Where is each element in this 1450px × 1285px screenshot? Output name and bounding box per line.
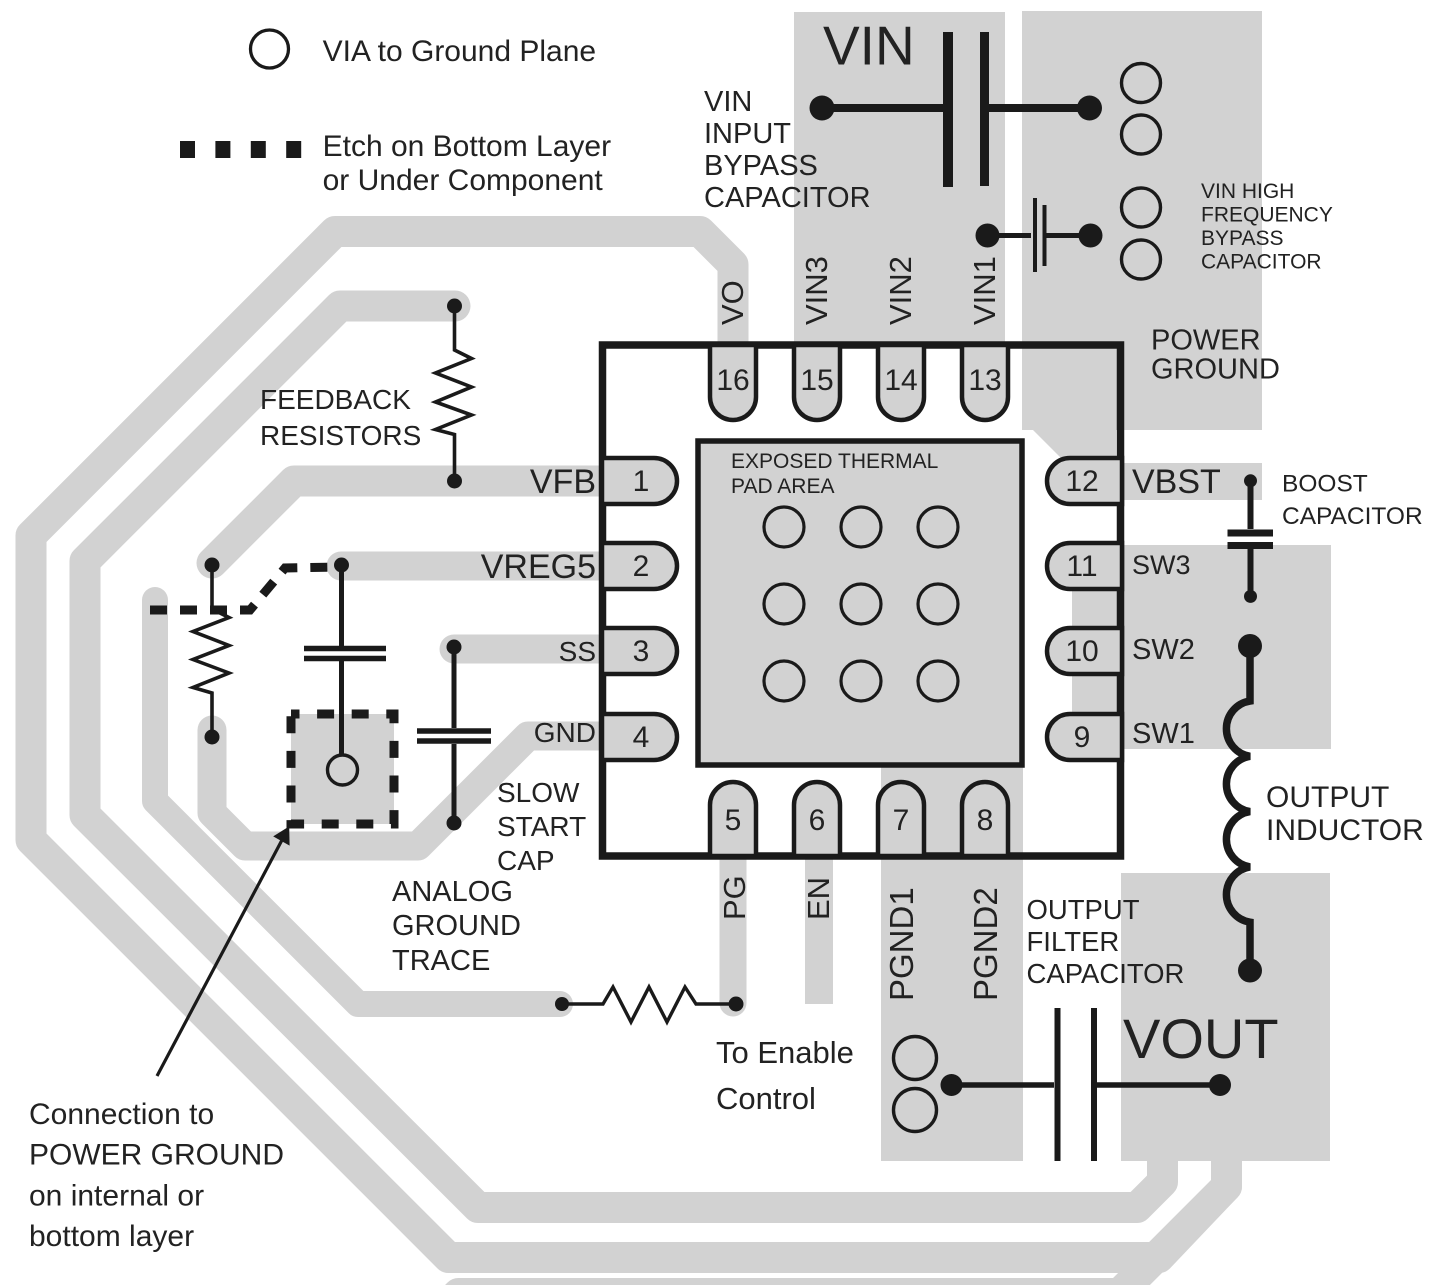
svg-text:or Under Component: or Under Component (323, 164, 604, 197)
svg-text:6: 6 (809, 804, 826, 837)
svg-text:CAP: CAP (497, 845, 555, 876)
svg-text:VIN: VIN (704, 86, 752, 118)
svg-text:PAD AREA: PAD AREA (731, 475, 834, 498)
svg-text:15: 15 (800, 364, 833, 397)
svg-text:CAPACITOR: CAPACITOR (704, 182, 871, 214)
svg-text:CAPACITOR: CAPACITOR (1201, 251, 1322, 274)
svg-text:GROUND: GROUND (392, 910, 521, 942)
svg-text:VIN1: VIN1 (967, 256, 1002, 325)
svg-text:INPUT: INPUT (704, 118, 791, 150)
svg-text:9: 9 (1074, 721, 1091, 754)
svg-text:7: 7 (893, 804, 910, 837)
svg-text:RESISTORS: RESISTORS (260, 420, 421, 451)
svg-text:BYPASS: BYPASS (1201, 227, 1283, 250)
svg-text:POWER GROUND: POWER GROUND (29, 1139, 284, 1172)
svg-text:4: 4 (633, 721, 650, 754)
svg-text:3: 3 (633, 635, 650, 668)
svg-text:12: 12 (1065, 465, 1098, 498)
svg-text:OUTPUT: OUTPUT (1027, 894, 1140, 925)
svg-text:bottom layer: bottom layer (29, 1220, 194, 1253)
svg-text:on internal or: on internal or (29, 1179, 204, 1212)
svg-text:SW3: SW3 (1132, 550, 1191, 580)
svg-text:SW2: SW2 (1132, 634, 1195, 666)
svg-text:VIN3: VIN3 (799, 256, 834, 325)
svg-text:VIA to Ground Plane: VIA to Ground Plane (323, 35, 597, 68)
svg-text:TRACE: TRACE (392, 945, 490, 977)
svg-text:10: 10 (1065, 635, 1098, 668)
svg-text:VIN HIGH: VIN HIGH (1201, 180, 1294, 203)
svg-text:PGND1: PGND1 (883, 887, 920, 1001)
svg-text:CAPACITOR: CAPACITOR (1027, 958, 1185, 989)
svg-text:PGND2: PGND2 (967, 887, 1004, 1001)
svg-text:SLOW: SLOW (497, 777, 580, 808)
svg-text:Etch on Bottom Layer: Etch on Bottom Layer (323, 130, 611, 163)
svg-text:SS: SS (559, 636, 596, 667)
svg-text:VBST: VBST (1132, 463, 1221, 501)
svg-text:Connection to: Connection to (29, 1098, 214, 1131)
svg-text:EXPOSED THERMAL: EXPOSED THERMAL (731, 450, 938, 473)
svg-text:FILTER: FILTER (1027, 926, 1120, 957)
svg-text:14: 14 (884, 364, 917, 397)
svg-text:13: 13 (968, 364, 1001, 397)
svg-text:CAPACITOR: CAPACITOR (1282, 503, 1423, 530)
svg-text:Control: Control (716, 1081, 816, 1116)
svg-text:VIN: VIN (823, 15, 915, 77)
svg-text:POWER: POWER (1151, 325, 1261, 357)
svg-text:FREQUENCY: FREQUENCY (1201, 204, 1333, 227)
svg-text:SW1: SW1 (1132, 718, 1195, 750)
svg-text:1: 1 (633, 465, 650, 498)
svg-text:VO: VO (715, 280, 750, 325)
svg-text:2: 2 (633, 550, 650, 583)
svg-text:GROUND: GROUND (1151, 354, 1280, 386)
svg-text:EN: EN (801, 877, 836, 920)
svg-text:BOOST: BOOST (1282, 471, 1368, 498)
svg-text:START: START (497, 811, 586, 842)
svg-text:VFB: VFB (530, 463, 596, 501)
svg-text:PG: PG (717, 875, 752, 920)
svg-text:GND: GND (534, 717, 596, 748)
svg-text:FEEDBACK: FEEDBACK (260, 384, 411, 415)
svg-text:8: 8 (977, 804, 994, 837)
svg-text:INDUCTOR: INDUCTOR (1266, 814, 1424, 847)
svg-text:VIN2: VIN2 (883, 256, 918, 325)
svg-text:BYPASS: BYPASS (704, 150, 818, 182)
svg-text:11: 11 (1066, 550, 1097, 583)
svg-text:VREG5: VREG5 (481, 548, 596, 586)
svg-text:VOUT: VOUT (1123, 1007, 1279, 1070)
svg-text:5: 5 (725, 804, 742, 837)
svg-text:16: 16 (716, 364, 749, 397)
svg-text:OUTPUT: OUTPUT (1266, 781, 1389, 814)
svg-text:To Enable: To Enable (716, 1035, 854, 1070)
svg-text:ANALOG: ANALOG (392, 876, 513, 908)
